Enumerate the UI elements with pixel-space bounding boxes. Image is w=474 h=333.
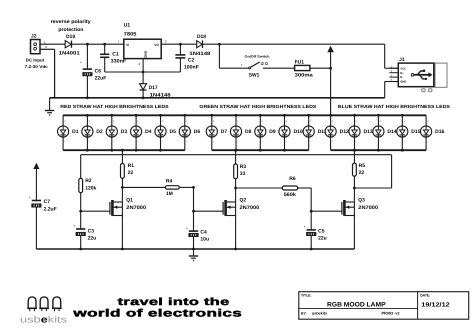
bottom ground rail [36,248,354,250]
regulator U1 7805 [118,22,167,66]
svg-text:+: + [403,119,405,123]
svg-text:33: 33 [240,171,246,177]
wire fuse to junction [310,67,332,70]
svg-text:C2: C2 [188,57,195,63]
svg-text:10u: 10u [200,237,209,243]
svg-text:+: + [427,119,429,123]
LED D14 [373,114,397,152]
transistor Q2 [223,198,259,216]
capacitor C3 [73,224,96,250]
resistor R1 [121,163,135,178]
fuse FU1 [295,59,313,78]
svg-text:1M: 1M [166,191,173,197]
svg-text:D17: D17 [149,85,158,91]
svg-text:D6: D6 [194,129,201,135]
svg-text:~: ~ [427,140,429,144]
svg-text:U1: U1 [124,22,131,28]
svg-text:+: + [29,196,31,200]
svg-text:Q3: Q3 [358,198,365,204]
svg-text:GREEN STRAW HAT HIGH BRIGHTNES: GREEN STRAW HAT HIGH BRIGHTNESS LEDS [199,104,316,109]
svg-text:GND: GND [400,81,406,84]
LED D1 [58,115,79,150]
svg-text:300ma: 300ma [295,73,313,79]
svg-text:D13: D13 [364,129,373,135]
diode D17 [140,72,171,99]
svg-text:+: + [88,119,90,123]
svg-text:D5: D5 [170,129,177,135]
resistor R6 [282,176,297,198]
svg-text:+: + [379,119,381,123]
svg-text:C4: C4 [200,229,207,235]
svg-text:C5: C5 [318,228,325,234]
svg-text:BY:: BY: [301,311,307,315]
wire R2 to gate node [79,193,82,229]
svg-text:+: + [73,224,75,228]
resistor R5 [353,163,366,176]
slogan line 1 [118,297,230,308]
svg-text:R1: R1 [128,163,135,169]
svg-text:C1: C1 [112,52,119,58]
wire feedback to R2 [80,155,82,179]
capacitor C7 [29,196,57,249]
power arrow +V [328,46,334,68]
svg-text:22u: 22u [88,236,97,242]
svg-text:~: ~ [137,140,139,144]
svg-text:D18: D18 [197,34,206,40]
wire J2 pin2 down to ground rail [40,49,55,98]
svg-text:D2: D2 [96,129,103,135]
LED D10 [279,114,303,152]
svg-text:reverse polarity: reverse polarity [51,19,91,25]
svg-text:22uF: 22uF [95,76,107,82]
LED D8 [230,114,251,152]
J1 shield pads [422,89,432,92]
svg-text:1N4148: 1N4148 [189,51,210,57]
svg-text:D12: D12 [340,129,349,135]
svg-text:560k: 560k [284,192,297,198]
label 1N4001 [59,50,80,56]
LED D9 [255,114,276,152]
svg-text:330nF: 330nF [111,59,127,65]
wire node to gate Q3 [311,210,342,212]
svg-text:7.2-30 Vdc: 7.2-30 Vdc [25,64,49,69]
svg-text:2N7000: 2N7000 [358,205,378,211]
svg-text:~: ~ [88,140,90,144]
svg-text:+: + [186,119,188,123]
svg-text:1: 1 [118,39,120,43]
svg-text:+: + [137,119,139,123]
svg-text:~: ~ [64,140,66,144]
wire R5 to Q3 drain [353,176,356,202]
svg-text:+: + [80,61,82,65]
wire R3 to Q2 drain [234,179,237,202]
svg-text:+: + [162,119,164,123]
svg-text:+: + [113,119,115,123]
logo LED icons [27,297,61,311]
LED D2 [82,114,103,152]
wire gate node to Q1 [81,210,110,212]
svg-text:C6: C6 [95,68,102,74]
svg-text:R6: R6 [289,176,296,182]
svg-text:2: 2 [45,45,47,49]
svg-text:2N7000: 2N7000 [240,205,260,211]
svg-text:usbekits: usbekits [20,315,68,325]
svg-text:2: 2 [139,62,141,66]
svg-text:+: + [356,119,358,123]
svg-text:C3: C3 [88,228,95,234]
LED D15 [397,114,421,152]
LED D16 [421,115,445,150]
svg-text:~: ~ [356,140,358,144]
wire Q2 source to rail [234,216,237,251]
svg-text:D14: D14 [387,129,396,135]
svg-text:travel into the: travel into the [118,297,230,308]
ground symbol main [45,98,54,115]
svg-text:100nF: 100nF [184,64,199,70]
svg-text:DC Input: DC Input [26,58,45,63]
LED D3 [106,114,127,152]
resistor R2 [79,178,97,193]
svg-text:+: + [261,119,263,123]
svg-text:19/12/12: 19/12/12 [421,302,450,309]
svg-text:1: 1 [241,63,243,67]
svg-text:+: + [310,119,312,123]
svg-text:R5: R5 [359,163,366,169]
svg-text:~: ~ [286,140,288,144]
svg-text:22: 22 [359,170,365,176]
diode D19 [65,41,71,48]
LED anode bus [63,114,426,116]
switch SW1 [241,54,270,78]
svg-text:~: ~ [113,140,115,144]
svg-text:D19: D19 [66,34,75,40]
capacitor C6 [80,43,106,99]
svg-text:D4: D4 [145,129,152,135]
svg-text:+: + [237,119,239,123]
svg-text:~: ~ [379,140,381,144]
label green group [199,104,316,109]
wire D18 to VCC corner [203,43,385,46]
wire U1 VO to D18 [161,43,197,45]
green cathode bus [212,149,309,151]
svg-text:D-: D- [400,76,403,79]
wire D19 to U1 [72,43,124,45]
svg-text:~: ~ [403,140,405,144]
label protection [58,27,83,33]
pin 2 label [45,45,47,49]
svg-text:22u: 22u [318,236,327,242]
LED D13 [349,114,373,152]
wire R1 to Q1 drain [121,178,124,202]
diode D18 [189,34,210,57]
wire gnd mini rail [105,59,181,74]
LED D5 [155,114,176,152]
capacitor C2 [175,43,199,72]
power arrow at C7 [34,163,39,200]
pin 1 label [44,40,46,44]
svg-text:2.2uF: 2.2uF [44,206,57,212]
wire junction to blue bus [330,68,332,115]
ground symbol bottom [189,249,198,260]
svg-text:+: + [213,119,215,123]
LED D11 [303,114,327,150]
svg-text:~: ~ [332,140,334,144]
slogan line 2 [72,308,242,320]
wire VCC down to J1 [385,44,399,68]
svg-text:~: ~ [261,140,263,144]
svg-text:~: ~ [186,140,188,144]
svg-text:D+: D+ [400,72,404,75]
svg-text:~: ~ [237,140,239,144]
blue cathode bus [331,149,427,151]
wire blue bus to R5 [353,149,356,163]
wire green bus to R3 [234,149,237,164]
red cathode bus [63,149,185,151]
svg-text:D16: D16 [435,129,444,135]
svg-text:D3: D3 [121,129,128,135]
svg-text:RGB MOOD LAMP: RGB MOOD LAMP [327,302,386,309]
transistor Q1 [110,198,146,216]
svg-text:VO: VO [154,43,159,47]
svg-text:VCC: VCC [400,67,406,70]
svg-text:VI: VI [126,43,129,47]
wire R6 to C5 node [298,188,313,230]
svg-text:Q2: Q2 [240,198,247,204]
svg-text:PR003 v2: PR003 v2 [382,311,400,315]
label reverse polarity [51,19,91,25]
J1 pin stubs [389,65,398,81]
LED D12 [325,114,349,150]
svg-text:1N4001: 1N4001 [59,50,80,56]
svg-text:BLUE STRAW HAT HIGH BRIGHTNESS: BLUE STRAW HAT HIGH BRIGHTNESS LEDS [338,104,450,109]
connector J2 [31,33,41,53]
transistor Q3 [342,198,378,216]
wire node to gate Q2 [192,187,223,230]
svg-text:22: 22 [128,170,134,176]
svg-text:J1: J1 [399,57,405,63]
svg-text:R4: R4 [166,178,173,184]
wire switch to fuse [263,67,295,69]
label blue group [338,104,450,109]
svg-text:7805: 7805 [124,31,137,37]
svg-text:Q1: Q1 [126,198,133,204]
svg-text:D10: D10 [294,129,303,135]
wire Q1 drain to R4 [122,186,165,188]
svg-text:RED STRAW HAT HIGH BRIGHTNESS: RED STRAW HAT HIGH BRIGHTNESS LEDS [60,104,168,109]
svg-text:3: 3 [165,39,167,43]
capacitor C4 [186,226,209,250]
svg-text:usbekits: usbekits [312,311,327,315]
wire J1 GND to ground rail [385,82,399,98]
svg-text:D9: D9 [269,129,276,135]
svg-text:+: + [304,225,306,229]
wire Q2 drain to R6 [236,187,283,189]
svg-text:C7: C7 [44,199,51,205]
svg-text:GND: GND [144,51,148,59]
wire Q1 source to rail [121,216,124,251]
svg-text:D7: D7 [221,129,228,135]
svg-text:~: ~ [213,140,215,144]
wire J2 pin1 to D19 [40,43,65,45]
resistor R4 [165,178,179,197]
wire red bus to R1 [121,149,124,164]
label D19 [66,34,75,40]
title text [301,293,451,315]
logo usbekits [20,315,68,325]
label red group [60,104,168,109]
svg-text:TITLE:: TITLE: [301,293,312,297]
wire junction down to switch [219,44,248,68]
svg-text:R2: R2 [85,178,92,184]
svg-text:+: + [332,119,334,123]
svg-text:~: ~ [162,140,164,144]
ground rail [50,97,385,99]
capacitor C5 [304,225,327,250]
title block box [299,292,469,320]
svg-text:D1: D1 [72,129,79,135]
svg-text:DATE:: DATE: [420,293,430,297]
svg-text:On/Off Switch: On/Off Switch [245,54,270,58]
svg-text:D8: D8 [245,129,252,135]
svg-text:SW1: SW1 [249,72,260,78]
svg-text:FU1: FU1 [295,59,305,65]
svg-text:protection: protection [58,27,83,33]
capacitor C1 [100,43,126,72]
resistor R3 [234,164,247,179]
label DC Input [25,58,49,70]
connector J1 USB [398,57,447,88]
LED D4 [131,114,152,152]
svg-text:world of electronics: world of electronics [72,308,242,320]
LED D6 [179,114,200,150]
svg-text:J2: J2 [31,33,37,39]
wire Q3 source to rail [353,216,355,250]
svg-text:+: + [186,226,188,230]
svg-text:~: ~ [310,140,312,144]
svg-text:+: + [64,119,66,123]
svg-text:D15: D15 [411,129,420,135]
svg-text:120k: 120k [85,185,96,191]
svg-text:R3: R3 [240,164,247,170]
feedback wire [81,155,392,188]
svg-text:+: + [286,119,288,123]
wire R4 to C4 node [179,186,195,189]
svg-text:2N7000: 2N7000 [126,205,146,211]
LED D7 [206,114,227,150]
